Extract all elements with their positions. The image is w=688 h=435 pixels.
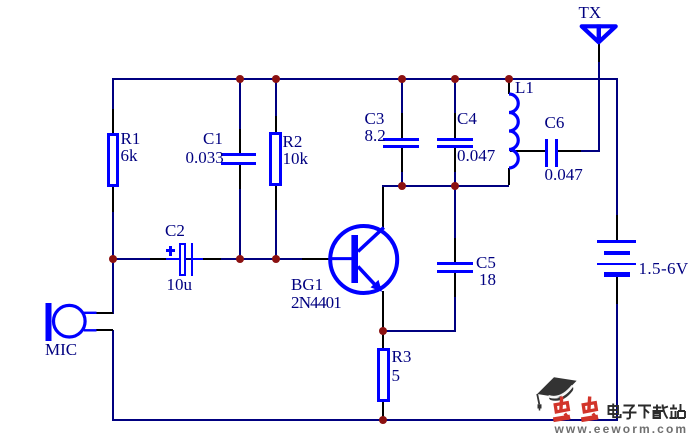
wire top rail — [112, 78, 618, 80]
inductor L1 — [499, 90, 529, 175]
value 18 — [479, 274, 496, 286]
junction dot C2 row C1 — [236, 255, 244, 263]
capacitor C4 — [437, 138, 473, 141]
pin black L1 upper — [508, 80, 510, 95]
wire right rail upper — [616, 78, 618, 216]
pin black MIC top stub — [96, 312, 113, 314]
wire C1 column — [239, 78, 241, 132]
wire C4 column — [454, 78, 456, 116]
junction dot bottom rail R3 — [379, 416, 387, 424]
label C2 — [165, 225, 185, 237]
pin black C6 right — [558, 150, 581, 152]
transistor Q1 BG1 — [325, 220, 405, 300]
value 2N4401 — [291, 297, 341, 309]
wire C3 column — [401, 78, 403, 116]
pin black C2 left — [150, 258, 166, 260]
label C3 — [365, 113, 385, 125]
plus sign of C2 — [166, 249, 176, 252]
pin black L1 lower — [508, 168, 510, 185]
watermark logo text dianzixiazaizhan — [607, 403, 686, 420]
label BG1 — [291, 279, 323, 291]
label L1 — [515, 82, 534, 94]
pin black R2 upper — [275, 116, 277, 133]
pin black battery bottom — [616, 277, 618, 305]
pin black transistor collector — [382, 187, 384, 228]
value 6k — [121, 150, 138, 162]
wire C6 row navy part — [581, 150, 600, 152]
label TX — [579, 7, 602, 19]
label C1 — [203, 133, 223, 145]
junction dot C2 row left — [109, 255, 117, 263]
pin black transistor emitter — [382, 291, 384, 330]
wire antenna column — [598, 62, 600, 152]
pin black C1 upper — [239, 129, 241, 153]
pin black C5 lower — [454, 273, 456, 297]
watermark logo graduation cap — [530, 370, 590, 415]
wire emitter row — [382, 330, 456, 332]
capacitor C5 — [437, 262, 473, 265]
pin black C4 upper — [454, 113, 456, 138]
junction dot emitter row — [379, 327, 387, 335]
value 0.033 — [186, 152, 224, 164]
label C5 — [476, 257, 496, 269]
pin black C2 right — [203, 258, 221, 260]
label R1 — [121, 133, 141, 145]
junction dot top rail L1 — [505, 75, 513, 83]
pin black C4 lower — [454, 148, 456, 172]
wire collector rail — [382, 185, 509, 187]
value 10u — [167, 279, 193, 291]
label C6 — [545, 117, 565, 129]
junction dot top rail R2 — [272, 75, 280, 83]
junction dot C2 row R2 — [272, 255, 280, 263]
wire left rail upper — [112, 78, 114, 315]
resistor R1 — [107, 133, 120, 187]
wire C5 column — [454, 187, 456, 239]
value 5 — [392, 370, 401, 382]
pin black C3 lower — [401, 148, 403, 172]
value 1.5-6V — [639, 263, 688, 275]
pin black antenna lead — [598, 43, 600, 62]
wire right rail lower — [616, 304, 618, 421]
junction dot collector rail C3 — [398, 182, 406, 190]
pin black MIC bottom stub — [96, 329, 113, 331]
pin black transistor base — [302, 258, 330, 260]
label MIC — [45, 344, 77, 356]
capacitor C2 polarized — [179, 243, 186, 276]
pin black C6 left — [510, 150, 545, 152]
battery B1 — [597, 240, 636, 243]
label C4 — [457, 113, 477, 125]
capacitor C1 — [221, 153, 256, 156]
label R2 — [283, 136, 303, 148]
pin black battery top — [616, 215, 618, 240]
value 0.047 — [545, 169, 583, 181]
value 8.2 — [365, 130, 386, 142]
pin black R2 lower — [275, 186, 277, 210]
junction dot collector rail C4 — [451, 182, 459, 190]
junction dot top rail C4 — [451, 75, 459, 83]
pin black C3 upper — [401, 113, 403, 138]
label R3 — [392, 351, 412, 363]
capacitor C6 — [545, 139, 548, 167]
watermark logo url — [555, 424, 688, 435]
value 0.047 — [457, 150, 495, 162]
pin black R3 lower — [382, 402, 384, 419]
capacitor C3 — [383, 138, 419, 141]
pin black R1 upper — [112, 109, 114, 133]
value 10k — [283, 153, 309, 165]
junction dot top rail C3 — [398, 75, 406, 83]
antenna TX — [570, 15, 625, 50]
junction dot top rail C1 — [236, 75, 244, 83]
wire bottom rail — [112, 419, 618, 421]
watermark logo text chongchong — [552, 395, 600, 423]
pin black C1 lower — [239, 165, 241, 189]
resistor R3 — [377, 348, 390, 402]
pin black R3 upper — [382, 332, 384, 348]
pin black R1 lower — [112, 187, 114, 212]
pin black C5 upper — [454, 238, 456, 262]
wire C2 row — [113, 258, 352, 260]
microphone MIC — [40, 298, 120, 348]
wire R2 column — [275, 78, 277, 116]
resistor R2 — [269, 132, 282, 186]
wire left rail lower — [112, 330, 114, 422]
